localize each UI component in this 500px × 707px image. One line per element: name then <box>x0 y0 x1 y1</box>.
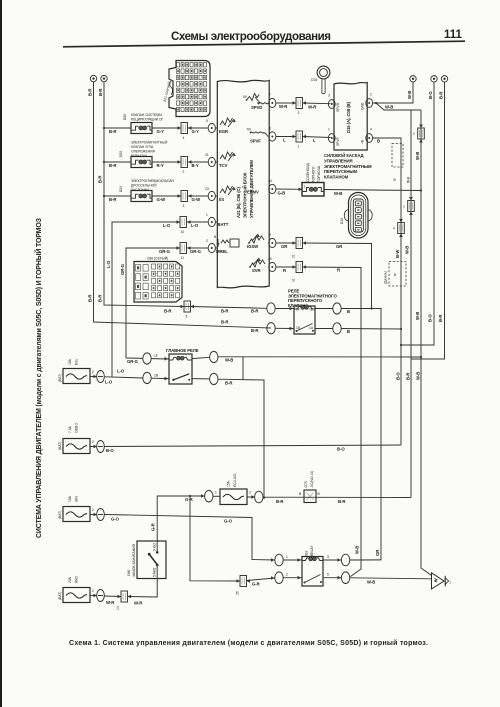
wire GND branch to W-B rail <box>375 102 421 110</box>
svg-text:G-W: G-W <box>192 197 202 202</box>
svg-text:1: 1 <box>215 491 217 495</box>
svg-text:SVR: SVR <box>252 268 262 273</box>
connector SPVD pin 3 <box>296 98 303 116</box>
svg-text:B-R: B-R <box>109 163 117 168</box>
ECU internal MREL circuit <box>214 235 239 254</box>
svg-text:GR-G: GR-G <box>190 249 202 254</box>
connector 31 SVR <box>292 262 307 283</box>
wire W-B main rail <box>415 110 432 576</box>
wire GND to top terminal W-B <box>373 82 413 103</box>
wire D26 connector to ECU pin EGR <box>188 126 209 134</box>
node label row2 B-R <box>221 320 259 334</box>
wire ignition switch feed G-R up <box>151 494 205 541</box>
connector D18 pins <box>355 201 361 232</box>
svg-text:B-R: B-R <box>98 88 103 96</box>
terminal circle left rail 2 <box>101 75 107 81</box>
connector A21 pin grid fills <box>177 64 205 111</box>
wire B-O row F2 to right rail <box>104 445 401 453</box>
svg-text:14: 14 <box>116 606 120 610</box>
wire G-O row F3 to IG2 relay <box>104 515 274 562</box>
wire rail B-R 1 <box>94 82 272 328</box>
pin BATT ellipse <box>206 213 217 227</box>
svg-text:8: 8 <box>269 127 271 131</box>
svg-text:GR: GR <box>336 244 343 249</box>
svg-text:SPVF: SPVF <box>336 137 340 146</box>
ECU internal IGSW circuit <box>247 234 264 249</box>
svg-text:G-R: G-R <box>151 522 156 531</box>
svg-text:9: 9 <box>269 233 271 237</box>
relay main <box>169 354 192 384</box>
connector C86 pin fills <box>137 266 178 298</box>
pin ellipse bypass relay row2 left <box>267 323 294 334</box>
svg-text:W-B: W-B <box>225 358 233 363</box>
svg-text:E/G: E/G <box>75 359 79 365</box>
svg-text:B-R: B-R <box>251 309 259 314</box>
svg-text:1F: 1F <box>154 354 158 358</box>
connector BATT pin 10 <box>177 217 187 235</box>
wire D26 row left <box>103 127 131 134</box>
svg-text:4: 4 <box>183 136 185 140</box>
connector C86 face view <box>134 257 182 303</box>
solenoid mountain brake label <box>306 162 321 182</box>
ground chassis symbol <box>432 573 451 589</box>
connector 26 G-R <box>236 576 251 596</box>
svg-text:B-R: B-R <box>109 129 117 134</box>
ECU internal resistor EGR <box>219 118 236 134</box>
svg-text:2: 2 <box>183 170 185 174</box>
svg-text:21: 21 <box>205 153 209 157</box>
svg-text:ГОРНОГО: ГОРНОГО <box>312 166 316 182</box>
svg-text:2: 2 <box>370 93 372 97</box>
svg-text:GR-G: GR-G <box>159 249 171 254</box>
svg-text:L-O: L-O <box>163 223 171 228</box>
terminal circle B-O top <box>428 76 437 99</box>
fuse F5 15A ECU-IG2 <box>220 473 263 504</box>
svg-text:15A: 15A <box>68 358 72 365</box>
svg-text:B-O: B-O <box>396 372 401 380</box>
svg-text:W-B: W-B <box>415 152 420 160</box>
pin ellipse bypass relay row1 right <box>315 303 381 314</box>
svg-text:2: 2 <box>413 132 415 136</box>
pin ellipse IG2 relay switch right <box>323 572 431 585</box>
svg-text:RELAY: RELAY <box>310 545 314 556</box>
svg-text:31: 31 <box>292 278 296 282</box>
ECU A21/C86 engine control unit block <box>217 80 269 288</box>
svg-text:W-R: W-R <box>106 600 115 605</box>
ECU internal resistor I/S <box>219 186 236 202</box>
svg-text:20A: 20A <box>68 576 72 583</box>
svg-text:W-B: W-B <box>407 91 412 99</box>
svg-text:2: 2 <box>92 589 94 593</box>
pin I/S ellipse <box>205 187 217 201</box>
terminal circle W-B top <box>407 76 416 99</box>
svg-text:GR: GR <box>375 549 380 556</box>
svg-text:ЭЛЕКТРОМАГНИТНЫМ: ЭЛЕКТРОМАГНИТНЫМ <box>324 164 372 169</box>
svg-text:B-R: B-R <box>221 320 229 325</box>
wire EXMV to brake solenoid <box>276 188 302 196</box>
pin SPVD block ellipse <box>328 94 335 109</box>
dashed option box 1 <box>392 144 411 184</box>
wire B-R rail <box>411 82 445 359</box>
connector 5 row1 <box>164 301 194 319</box>
svg-text:ЭЛЕКТРОМАГНИТНЫЙ: ЭЛЕКТРОМАГНИТНЫЙ <box>131 141 168 145</box>
svg-text:Схема 1. Система управления дв: Схема 1. Система управления двигателем (… <box>69 639 428 647</box>
svg-text:2: 2 <box>286 573 288 577</box>
svg-text:B: B <box>377 139 380 144</box>
svg-text:EGR: EGR <box>219 129 229 134</box>
junction connector G70 J/C <box>299 471 321 503</box>
valve D24 <box>131 191 153 202</box>
relay bypass solenoid <box>294 306 315 335</box>
svg-text:D15 (А), C08 (В): D15 (А), C08 (В) <box>346 101 351 133</box>
svg-text:21: 21 <box>292 254 296 258</box>
svg-text:SPVD: SPVD <box>336 102 340 112</box>
ring terminal symbol <box>311 66 330 94</box>
svg-text:B-R: B-R <box>251 328 259 333</box>
svg-text:SPVF: SPVF <box>250 139 261 144</box>
svg-text:КЛАПАН СИСТЕМЫ: КЛАПАН СИСТЕМЫ <box>131 113 162 117</box>
svg-text:(Дизель): (Дизель) <box>384 271 388 284</box>
wire main relay B-R output <box>192 373 265 498</box>
svg-text:L-O: L-O <box>191 223 199 228</box>
svg-text:КЛАПАНОМ: КЛАПАНОМ <box>324 175 349 180</box>
svg-text:B-R: B-R <box>88 88 93 96</box>
svg-text:(BAT): (BAT) <box>58 511 62 519</box>
svg-text:1: 1 <box>403 205 405 209</box>
svg-text:ПЕРЕПУСКНЫМ: ПЕРЕПУСКНЫМ <box>324 169 357 174</box>
svg-text:1: 1 <box>286 555 288 559</box>
svg-text:7: 7 <box>269 93 271 97</box>
wire IGSW row <box>276 241 296 249</box>
svg-text:SPVD: SPVD <box>251 105 262 110</box>
connector 14 AM2 <box>116 591 131 610</box>
wire G-R branch down to IG2 relay <box>190 496 240 581</box>
svg-text:G-O: G-O <box>224 519 233 524</box>
svg-text:): ) <box>450 580 451 584</box>
svg-text:Схемы электрооборудования: Схемы электрооборудования <box>171 31 331 43</box>
pin ellipse main relay switch left <box>143 372 169 383</box>
wire MREL connector to pin <box>187 246 209 254</box>
svg-text:B: B <box>347 329 350 334</box>
pin GND block ellipse <box>366 93 373 108</box>
wire D24 to connector <box>152 194 181 202</box>
svg-text:B-R: B-R <box>98 175 103 183</box>
svg-text:9 IG2: 9 IG2 <box>153 543 157 551</box>
wire MREL row with GR-G rail <box>120 248 180 358</box>
dashed option box 2 (diesel) <box>384 262 407 287</box>
pin SPVF ellipse <box>269 127 276 142</box>
wire +B to rail P2 <box>373 138 403 445</box>
wire B-O rail <box>401 82 434 345</box>
svg-text:B-W: B-W <box>395 249 400 258</box>
svg-text:W-R: W-R <box>308 105 317 110</box>
pin ellipse main relay coil left <box>143 353 169 364</box>
svg-text:B-R: B-R <box>88 294 93 302</box>
svg-text:B-R: B-R <box>98 294 103 302</box>
svg-text:W-B: W-B <box>385 105 393 110</box>
pin SPVD ellipse <box>268 93 276 108</box>
svg-text:15A: 15A <box>227 480 231 487</box>
svg-text:15A: 15A <box>68 495 72 502</box>
svg-text:1F: 1F <box>296 308 300 312</box>
svg-text:3: 3 <box>328 94 330 98</box>
svg-text:W-B: W-B <box>334 191 342 196</box>
wire GR rail to IG2 relay <box>303 243 382 560</box>
pin IGSW ellipse <box>269 233 276 248</box>
wire R rail to IG2 relay row B <box>303 267 362 577</box>
svg-text:1: 1 <box>298 145 300 149</box>
svg-text:W-B: W-B <box>367 580 375 585</box>
wire SPVD connector to block <box>303 101 331 109</box>
svg-text:L-O: L-O <box>106 260 111 268</box>
svg-text:D20: D20 <box>119 151 123 157</box>
svg-text:ТОРМОЗА: ТОРМОЗА <box>317 165 321 182</box>
valve D26 (EGR valve) label <box>123 113 164 122</box>
pin ellipse IG2 relay coil left <box>275 554 302 566</box>
pin SPVF block ellipse <box>328 128 335 143</box>
svg-text:2: 2 <box>92 370 94 374</box>
svg-text:W-B: W-B <box>416 372 421 380</box>
svg-text:ЭЛЕКТРОПНЕВМОКЛАПАН: ЭЛЕКТРОПНЕВМОКЛАПАН <box>131 179 175 183</box>
wire D20 connector to ECU pin TCV <box>188 160 209 168</box>
connector D26 pin 4 <box>181 123 188 141</box>
svg-text:G66: G66 <box>127 570 131 576</box>
svg-text:ECU-IG2: ECU-IG2 <box>233 473 237 487</box>
svg-text:СИСТЕМА УПРАВЛЕНИЯ ДВИГАТЕЛЕМ: СИСТЕМА УПРАВЛЕНИЯ ДВИГАТЕЛЕМ (модели с … <box>34 217 43 538</box>
svg-text:J/C(NO.14): J/C(NO.14) <box>310 471 314 488</box>
svg-text:B-O: B-O <box>428 91 433 99</box>
svg-text:G-O: G-O <box>111 517 120 522</box>
svg-text:СОЛЕНОИД: СОЛЕНОИД <box>306 162 310 182</box>
svg-text:2: 2 <box>206 239 208 243</box>
svg-text:5 AM2: 5 AM2 <box>153 567 157 577</box>
svg-text:3: 3 <box>298 111 300 115</box>
connector D24 pin 3 <box>181 191 188 209</box>
connector 2 on W-B rail <box>413 125 424 143</box>
wire main relay W-B output <box>192 351 421 362</box>
wire D20 row left <box>103 161 131 168</box>
svg-text:ОПЕРЕЖЕНИЯ: ОПЕРЕЖЕНИЯ <box>131 150 156 154</box>
svg-text:W-R: W-R <box>134 601 143 606</box>
wire D24 connector to ECU pin I/S <box>188 194 209 202</box>
svg-text:L-O: L-O <box>105 380 113 385</box>
svg-text:7.5A: 7.5A <box>68 425 72 433</box>
wire W-R connector to ignition switch <box>128 579 158 606</box>
connector MREL pin 11 <box>177 243 187 261</box>
fuse F4 20A AM2 <box>58 576 104 602</box>
wire D20 to connector <box>152 160 181 168</box>
svg-text:(BAT): (BAT) <box>58 374 62 382</box>
svg-text:G-R: G-R <box>185 497 194 502</box>
svg-text:РЕЦИРКУЛЯЦИИ ОГ: РЕЦИРКУЛЯЦИИ ОГ <box>131 118 164 122</box>
svg-text:ЗАМОК ЗАЖИГАНИЯ: ЗАМОК ЗАЖИГАНИЯ <box>132 544 136 577</box>
svg-text:B-R: B-R <box>439 91 444 99</box>
connector 1 on rail P1 <box>403 197 414 215</box>
svg-text:4: 4 <box>370 128 372 132</box>
svg-text:IGSW: IGSW <box>247 244 259 249</box>
ECU internal resistor TCV <box>219 152 236 168</box>
svg-text:D24: D24 <box>119 186 123 192</box>
svg-text:IGN: IGN <box>75 496 79 502</box>
svg-text:4: 4 <box>393 227 395 231</box>
svg-text:26: 26 <box>236 591 240 595</box>
svg-text:B-Y: B-Y <box>192 163 199 168</box>
svg-text:3: 3 <box>183 204 185 208</box>
svg-text:EXMV: EXMV <box>247 190 259 195</box>
ignition switch G66 <box>127 541 166 579</box>
relay IG2 <box>302 545 323 586</box>
fuse F1 15A E/G <box>58 358 104 383</box>
connector D20 pin 2 <box>181 157 188 175</box>
wire GR-G rail to main relay <box>126 358 143 364</box>
connector A21 face view <box>163 61 210 117</box>
svg-text:G70: G70 <box>304 481 308 487</box>
solenoid mountain brake <box>302 183 324 197</box>
pin ellipse bypass relay row1 left <box>267 303 294 314</box>
svg-text:R-Y: R-Y <box>157 163 164 168</box>
svg-text:5: 5 <box>327 573 329 577</box>
svg-text:СИЛОВОЙ КАСКАД: СИЛОВОЙ КАСКАД <box>324 153 363 158</box>
svg-text:GR: GR <box>281 244 288 249</box>
svg-text:1: 1 <box>206 213 208 217</box>
svg-text:(BAT): (BAT) <box>58 592 62 600</box>
rail P1 W-B <box>405 110 412 498</box>
svg-text:2: 2 <box>249 491 251 495</box>
svg-text:L-O: L-O <box>117 369 125 374</box>
solenoid bypass relay label <box>288 289 337 308</box>
pin ellipse ECU-IG2 fuse left <box>205 490 220 502</box>
svg-text:B-R: B-R <box>225 381 233 386</box>
svg-text:B-R: B-R <box>164 309 172 314</box>
wire SPVF connector to block <box>303 135 331 143</box>
svg-text:1: 1 <box>304 185 306 189</box>
wire connector 26 to IG2 relay <box>247 576 275 586</box>
wire W-R row F4 to connector 14 <box>104 596 121 605</box>
svg-text:GR-G: GR-G <box>127 359 139 364</box>
svg-text:2: 2 <box>92 440 94 444</box>
svg-text:ГЛАВНОЕ РЕЛЕ: ГЛАВНОЕ РЕЛЕ <box>166 348 199 353</box>
pin ellipse bypass relay row2 right <box>315 323 401 334</box>
wire D24 row left <box>103 195 131 202</box>
valve D26 <box>131 123 153 134</box>
svg-text:30: 30 <box>268 257 272 261</box>
node labels below rail jogs <box>396 372 421 380</box>
svg-text:BATT: BATT <box>218 222 229 227</box>
pin MREL ellipse <box>206 239 217 253</box>
svg-text:C86 (СЕРЫЙ): C86 (СЕРЫЙ) <box>147 257 168 261</box>
ECU internal SVR circuit <box>249 258 265 273</box>
svg-text:OBD-2: OBD-2 <box>75 423 79 433</box>
svg-text:B-O: B-O <box>428 314 433 322</box>
svg-text:A21 (Б), C86 (С): A21 (Б), C86 (С) <box>236 186 241 218</box>
svg-text:(BAT): (BAT) <box>58 442 62 450</box>
svg-text:D26: D26 <box>123 114 127 120</box>
terminal circle B-R top <box>439 76 448 99</box>
connector SPVF pin 1 <box>296 131 303 149</box>
svg-text:G-Y: G-Y <box>157 129 165 134</box>
wire B-R row fuse to P1 rail <box>263 497 411 504</box>
fuse F2 7.5A OBD-2 <box>58 423 104 454</box>
svg-text:G-Y: G-Y <box>192 129 200 134</box>
wire SPVF row ECU to power block <box>276 135 296 143</box>
svg-text:W-R: W-R <box>279 104 288 109</box>
svg-text:IG2: IG2 <box>305 551 309 556</box>
svg-text:3: 3 <box>327 555 329 559</box>
svg-text:КЛАПАН УГЛА: КЛАПАН УГЛА <box>131 145 154 149</box>
wire connector 5 to bypass relay pin <box>191 307 267 314</box>
valve D20 <box>131 157 153 168</box>
svg-text:MREL: MREL <box>216 249 228 254</box>
svg-text:G-R: G-R <box>252 582 261 587</box>
wire D26 to connector <box>152 126 181 134</box>
svg-text:5: 5 <box>186 315 188 319</box>
pin EGR ellipse <box>206 119 217 133</box>
wire BATT connector to pin <box>187 220 209 228</box>
connector D18 oval face view <box>340 193 372 239</box>
svg-text:ЭЛЕКТРОННЫЙ БЛОК: ЭЛЕКТРОННЫЙ БЛОК <box>243 172 248 218</box>
svg-text:B-O: B-O <box>106 448 114 453</box>
svg-text:5: 5 <box>206 119 208 123</box>
svg-text:B-R: B-R <box>338 499 346 504</box>
svg-text:B-O: B-O <box>337 447 345 452</box>
svg-text:ДРОССЕЛЬНОЙ: ДРОССЕЛЬНОЙ <box>131 184 157 188</box>
svg-text:D18: D18 <box>311 78 317 82</box>
svg-text:W-B: W-B <box>355 546 360 554</box>
pin EXMV ellipse <box>268 179 276 194</box>
svg-text:W-B: W-B <box>407 176 411 183</box>
svg-text:B-R: B-R <box>221 309 229 314</box>
svg-text:W-B: W-B <box>415 312 420 320</box>
svg-text:D18: D18 <box>340 218 344 224</box>
svg-text:AM2: AM2 <box>75 576 79 583</box>
wire BATT row with L-O rail <box>106 222 180 378</box>
wire solenoid to W-B rail <box>324 190 421 197</box>
svg-text:TCV: TCV <box>219 163 228 168</box>
svg-text:GR-G: GR-G <box>120 263 125 275</box>
svg-text:11: 11 <box>181 256 185 260</box>
connector 21 IGSW <box>292 238 307 259</box>
svg-text:2: 2 <box>92 508 94 512</box>
pin TCV ellipse <box>205 153 217 167</box>
connector 4 on rail P2 <box>393 219 404 237</box>
wire F1 to main relay <box>104 369 143 385</box>
pin SVR ellipse <box>268 257 276 272</box>
valve D20 (injection timing valve) label <box>119 141 168 159</box>
pin ellipse IG2 relay switch left <box>275 572 302 584</box>
connector A21 pin grid <box>177 63 207 112</box>
svg-text:W-B: W-B <box>405 246 410 254</box>
page left edge scan line <box>0 0 2 707</box>
svg-text:B-R: B-R <box>276 499 284 504</box>
svg-text:10: 10 <box>181 230 185 234</box>
ECU internal SPVF driver <box>247 128 268 144</box>
wire SPVD row ECU to power block <box>276 101 296 109</box>
wire row1 to bypass relay <box>184 306 191 308</box>
svg-text:G-B: G-B <box>278 191 286 196</box>
valve D24 (throttle valve solenoid) label <box>119 179 175 192</box>
connector C86 pin grid <box>136 264 180 299</box>
label power block <box>324 153 372 180</box>
svg-text:GND: GND <box>361 102 365 110</box>
wire rail B-R 2 <box>104 82 184 307</box>
svg-text:23: 23 <box>205 187 209 191</box>
wire link main relay rows <box>242 357 244 380</box>
svg-text:I/S: I/S <box>219 197 224 202</box>
svg-text:24: 24 <box>268 179 272 183</box>
pin ellipse IG2 relay coil right <box>323 554 381 566</box>
header rule <box>63 41 465 47</box>
connector D18 pin slots <box>357 203 359 231</box>
